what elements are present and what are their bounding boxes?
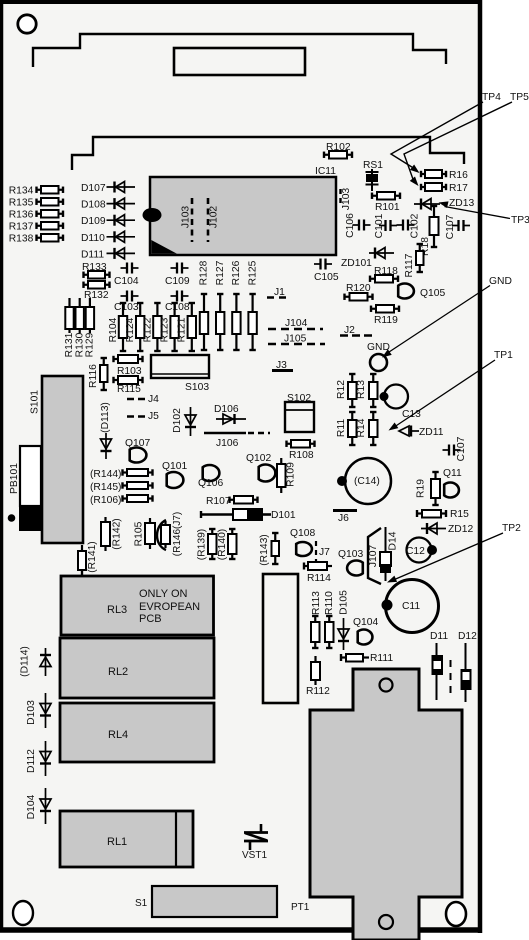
svg-text:D12: D12 xyxy=(458,631,477,642)
svg-text:ZD13: ZD13 xyxy=(449,198,474,209)
svg-text:Q103: Q103 xyxy=(338,549,363,560)
svg-text:RL1: RL1 xyxy=(107,836,127,848)
svg-text:TP1: TP1 xyxy=(494,350,513,361)
svg-text:TP3: TP3 xyxy=(511,215,529,226)
svg-text:D112: D112 xyxy=(26,749,37,773)
svg-text:TP2: TP2 xyxy=(502,523,521,534)
svg-text:J107: J107 xyxy=(368,545,379,568)
svg-text:D104: D104 xyxy=(26,794,37,819)
svg-text:ZD12: ZD12 xyxy=(448,524,473,535)
svg-text:(R139): (R139) xyxy=(197,529,208,560)
svg-text:R104: R104 xyxy=(108,317,119,342)
svg-text:R12: R12 xyxy=(336,380,347,399)
svg-text:(R141): (R141) xyxy=(87,541,98,572)
svg-text:R14: R14 xyxy=(356,418,367,437)
svg-text:C107: C107 xyxy=(456,436,467,461)
svg-text:EVROPEAN: EVROPEAN xyxy=(139,601,200,613)
svg-text:R107: R107 xyxy=(206,496,231,507)
svg-text:R16: R16 xyxy=(449,170,468,181)
svg-text:PB101: PB101 xyxy=(9,463,20,494)
svg-text:R112: R112 xyxy=(306,686,330,697)
svg-text:R109: R109 xyxy=(286,462,297,487)
svg-text:D108: D108 xyxy=(81,200,106,211)
svg-text:PCB: PCB xyxy=(139,613,162,625)
svg-text:C103: C103 xyxy=(114,302,139,313)
svg-text:R134: R134 xyxy=(9,186,34,197)
svg-text:Q104: Q104 xyxy=(353,617,378,628)
svg-text:Q106: Q106 xyxy=(198,478,223,489)
svg-text:R19: R19 xyxy=(416,479,427,498)
svg-text:ONLY ON: ONLY ON xyxy=(139,588,188,600)
svg-text:S103: S103 xyxy=(185,382,209,393)
svg-text:(R143): (R143) xyxy=(259,534,270,565)
svg-text:(D113): (D113) xyxy=(100,402,111,433)
svg-text:C107: C107 xyxy=(445,214,456,239)
svg-text:(R140): (R140) xyxy=(217,529,228,560)
svg-text:J6: J6 xyxy=(338,513,349,524)
svg-text:Q102: Q102 xyxy=(246,453,271,464)
svg-text:PT1: PT1 xyxy=(291,902,310,913)
svg-text:D102: D102 xyxy=(172,408,183,433)
svg-text:R117: R117 xyxy=(404,253,415,277)
svg-text:(C14): (C14) xyxy=(354,476,380,487)
svg-text:C109: C109 xyxy=(165,276,190,287)
svg-text:R122: R122 xyxy=(142,317,153,342)
svg-text:R115: R115 xyxy=(117,384,141,395)
svg-text:(R145): (R145) xyxy=(90,482,121,493)
svg-text:R129: R129 xyxy=(85,332,96,357)
svg-text:VST1: VST1 xyxy=(242,850,267,861)
svg-text:R136: R136 xyxy=(9,210,34,221)
svg-text:TP5: TP5 xyxy=(510,92,529,103)
svg-text:R132: R132 xyxy=(84,290,109,301)
svg-text:D103: D103 xyxy=(26,700,37,725)
svg-text:(R146(J7): (R146(J7) xyxy=(172,512,183,556)
svg-text:R121: R121 xyxy=(177,317,188,342)
svg-text:C11: C11 xyxy=(402,601,420,612)
svg-text:GND: GND xyxy=(489,276,512,287)
svg-text:C102: C102 xyxy=(410,213,421,238)
svg-text:C12: C12 xyxy=(406,546,425,557)
svg-text:R105: R105 xyxy=(134,521,145,546)
svg-text:R135: R135 xyxy=(9,198,34,209)
svg-text:(R106): (R106) xyxy=(90,495,121,506)
svg-text:R125: R125 xyxy=(247,260,258,285)
svg-text:R113: R113 xyxy=(311,591,322,615)
svg-text:R108: R108 xyxy=(289,450,314,461)
svg-text:D107: D107 xyxy=(81,183,106,194)
svg-text:ZD11: ZD11 xyxy=(419,427,444,438)
svg-text:R110: R110 xyxy=(324,591,335,615)
svg-text:R137: R137 xyxy=(9,222,34,233)
svg-text:R114: R114 xyxy=(307,573,331,584)
svg-text:D14: D14 xyxy=(388,531,399,550)
svg-text:R126: R126 xyxy=(231,260,242,285)
svg-text:J104: J104 xyxy=(285,318,308,329)
svg-text:D110: D110 xyxy=(81,233,105,244)
svg-text:D109: D109 xyxy=(81,216,106,227)
svg-text:RL2: RL2 xyxy=(108,666,128,678)
svg-text:J4: J4 xyxy=(148,394,159,405)
svg-text:J106: J106 xyxy=(216,438,239,449)
svg-text:R124: R124 xyxy=(125,317,136,342)
svg-text:J102: J102 xyxy=(209,206,220,229)
svg-text:TP4: TP4 xyxy=(482,92,501,103)
svg-text:S101: S101 xyxy=(30,390,41,414)
svg-text:R101: R101 xyxy=(375,202,400,213)
svg-text:Q11: Q11 xyxy=(443,468,462,479)
svg-text:RS1: RS1 xyxy=(363,160,383,171)
svg-text:R15: R15 xyxy=(450,509,469,520)
svg-text:R119: R119 xyxy=(374,315,398,326)
svg-text:S1: S1 xyxy=(135,898,148,909)
svg-text:D105: D105 xyxy=(339,590,350,615)
svg-text:Q101: Q101 xyxy=(162,461,187,472)
svg-text:J7: J7 xyxy=(319,547,330,558)
svg-text:R138: R138 xyxy=(9,234,34,245)
svg-text:J5: J5 xyxy=(148,411,159,422)
svg-text:RL3: RL3 xyxy=(107,604,127,616)
svg-text:C105: C105 xyxy=(314,272,339,283)
svg-text:(R142): (R142) xyxy=(112,518,123,549)
svg-text:D101: D101 xyxy=(271,510,296,521)
svg-text:RL4: RL4 xyxy=(108,729,128,741)
svg-text:J103: J103 xyxy=(341,188,352,211)
svg-text:R13: R13 xyxy=(356,380,367,399)
svg-text:R11: R11 xyxy=(336,419,347,437)
svg-text:C104: C104 xyxy=(114,276,139,287)
svg-text:R127: R127 xyxy=(215,260,226,285)
svg-text:R128: R128 xyxy=(199,260,210,285)
svg-text:(R144): (R144) xyxy=(90,469,121,480)
svg-text:IC11: IC11 xyxy=(315,166,336,177)
svg-text:R116: R116 xyxy=(88,364,99,388)
svg-text:D111: D111 xyxy=(81,249,104,260)
svg-text:(D114): (D114) xyxy=(20,646,31,677)
svg-text:D11: D11 xyxy=(430,631,448,642)
svg-text:R17: R17 xyxy=(449,183,468,194)
svg-text:R111: R111 xyxy=(370,653,393,664)
svg-text:J103: J103 xyxy=(181,206,192,229)
svg-text:Q108: Q108 xyxy=(290,528,315,539)
svg-text:D106: D106 xyxy=(214,404,239,415)
svg-text:R123: R123 xyxy=(160,317,171,342)
svg-text:ZD101: ZD101 xyxy=(341,258,372,269)
svg-text:Q105: Q105 xyxy=(420,288,445,299)
